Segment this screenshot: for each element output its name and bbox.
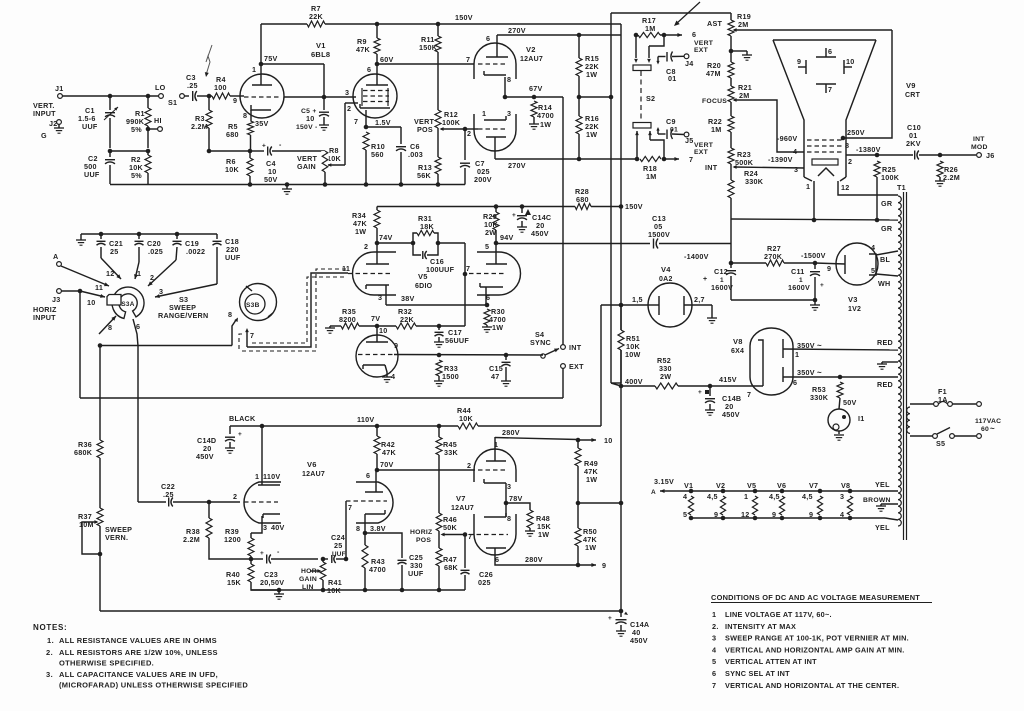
svg-text:C9: C9 bbox=[666, 117, 676, 126]
svg-text:1: 1 bbox=[806, 182, 810, 191]
svg-text:68K: 68K bbox=[444, 563, 458, 572]
svg-text:INT: INT bbox=[569, 343, 582, 352]
svg-text:2W: 2W bbox=[485, 228, 496, 237]
svg-text:J5: J5 bbox=[685, 136, 694, 145]
svg-text:4700: 4700 bbox=[537, 111, 554, 120]
svg-text:EXT: EXT bbox=[569, 362, 584, 371]
svg-text:.25: .25 bbox=[187, 81, 198, 90]
svg-text:+: + bbox=[262, 143, 266, 150]
svg-text:1500: 1500 bbox=[442, 372, 459, 381]
svg-text:V7: V7 bbox=[809, 481, 818, 490]
svg-text:SYNC: SYNC bbox=[530, 338, 551, 347]
svg-text:01: 01 bbox=[670, 127, 678, 134]
svg-text:A: A bbox=[651, 489, 656, 496]
svg-text:YEL: YEL bbox=[875, 523, 890, 532]
svg-text:10K: 10K bbox=[225, 165, 239, 174]
svg-text:56K: 56K bbox=[417, 171, 431, 180]
svg-text:3: 3 bbox=[794, 165, 798, 174]
svg-text:S5: S5 bbox=[936, 439, 945, 448]
svg-text:025: 025 bbox=[478, 578, 491, 587]
svg-text:11: 11 bbox=[95, 283, 103, 292]
svg-text:UUF: UUF bbox=[332, 551, 346, 558]
svg-text:40V: 40V bbox=[271, 523, 285, 532]
svg-text:J2: J2 bbox=[49, 119, 58, 128]
svg-text:3: 3 bbox=[263, 523, 267, 532]
svg-text:1: 1 bbox=[744, 492, 748, 501]
svg-text:6: 6 bbox=[366, 471, 370, 480]
svg-text:3: 3 bbox=[507, 109, 511, 118]
svg-text:RED: RED bbox=[877, 338, 893, 347]
svg-text:250V: 250V bbox=[847, 128, 865, 137]
svg-text:I1: I1 bbox=[858, 414, 865, 423]
svg-text:+: + bbox=[820, 282, 824, 289]
svg-text:~: ~ bbox=[817, 368, 822, 377]
svg-text:5: 5 bbox=[683, 510, 687, 519]
svg-text:1W: 1W bbox=[492, 323, 503, 332]
svg-text:7: 7 bbox=[354, 117, 358, 126]
svg-text:V1: V1 bbox=[684, 481, 693, 490]
svg-text:5%: 5% bbox=[131, 125, 142, 134]
svg-text:2: 2 bbox=[233, 492, 237, 501]
svg-text:150K: 150K bbox=[419, 43, 438, 52]
svg-text:117VAC: 117VAC bbox=[975, 418, 1001, 425]
svg-text:7: 7 bbox=[689, 155, 693, 164]
svg-text:1: 1 bbox=[712, 610, 716, 619]
svg-text:V5: V5 bbox=[418, 272, 428, 281]
svg-text:1: 1 bbox=[137, 269, 141, 278]
svg-text:18K: 18K bbox=[420, 222, 434, 231]
svg-text:1.5V: 1.5V bbox=[375, 118, 391, 127]
svg-text:V7: V7 bbox=[456, 494, 466, 503]
svg-text:3.: 3. bbox=[46, 670, 53, 679]
svg-text:7: 7 bbox=[250, 331, 254, 340]
svg-text:280V: 280V bbox=[502, 428, 520, 437]
svg-text:22K: 22K bbox=[400, 315, 414, 324]
svg-text:V8: V8 bbox=[841, 481, 850, 490]
svg-text:INT: INT bbox=[705, 163, 718, 172]
svg-text:5: 5 bbox=[485, 242, 489, 251]
svg-text:6BL8: 6BL8 bbox=[311, 50, 330, 59]
svg-text:+: + bbox=[512, 212, 516, 219]
svg-text:UUF: UUF bbox=[82, 122, 98, 131]
svg-text:AST: AST bbox=[707, 19, 722, 28]
svg-text:4700: 4700 bbox=[369, 565, 386, 574]
svg-text:4,5: 4,5 bbox=[802, 492, 813, 501]
svg-text:6X4: 6X4 bbox=[731, 348, 744, 355]
svg-text:V4: V4 bbox=[661, 265, 671, 274]
svg-text:100K: 100K bbox=[442, 118, 461, 127]
svg-text:1500V: 1500V bbox=[648, 230, 670, 239]
svg-text:BROWN: BROWN bbox=[863, 497, 891, 504]
svg-text:+: + bbox=[260, 550, 264, 557]
svg-text:1M: 1M bbox=[645, 24, 656, 33]
svg-text:S2: S2 bbox=[646, 94, 655, 103]
svg-text:100: 100 bbox=[214, 83, 227, 92]
svg-text:1: 1 bbox=[482, 109, 486, 118]
svg-text:1: 1 bbox=[252, 65, 256, 74]
svg-text:50K: 50K bbox=[443, 523, 457, 532]
svg-text:1: 1 bbox=[494, 440, 498, 449]
svg-text:ALL RESISTORS ARE 1/2W 10%,: ALL RESISTORS ARE 1/2W 10%, UNLESS bbox=[59, 648, 218, 657]
svg-text:680K: 680K bbox=[74, 448, 93, 457]
svg-text:5: 5 bbox=[712, 657, 716, 666]
svg-text:350V: 350V bbox=[797, 341, 815, 350]
svg-text:50V: 50V bbox=[264, 175, 278, 184]
svg-text:12AU7: 12AU7 bbox=[302, 471, 325, 478]
svg-text:1M: 1M bbox=[711, 125, 722, 134]
svg-text:1W: 1W bbox=[586, 475, 597, 484]
svg-text:7: 7 bbox=[712, 681, 716, 690]
svg-text:V8: V8 bbox=[733, 337, 743, 346]
svg-text:70V: 70V bbox=[380, 460, 394, 469]
svg-text:74V: 74V bbox=[379, 233, 393, 242]
svg-text:100K: 100K bbox=[881, 173, 900, 182]
svg-text:WH: WH bbox=[878, 279, 890, 288]
svg-text:10: 10 bbox=[87, 298, 96, 307]
svg-text:2: 2 bbox=[467, 129, 471, 138]
svg-text:8: 8 bbox=[507, 514, 511, 523]
svg-text:60V: 60V bbox=[380, 55, 394, 64]
svg-text:38V: 38V bbox=[401, 294, 415, 303]
svg-text:9: 9 bbox=[394, 341, 398, 350]
svg-text:78V: 78V bbox=[509, 494, 523, 503]
svg-text:15K: 15K bbox=[227, 578, 241, 587]
svg-text:POS: POS bbox=[416, 537, 431, 544]
svg-text:3: 3 bbox=[712, 634, 716, 643]
svg-text:10K: 10K bbox=[459, 414, 473, 423]
svg-text:+: + bbox=[238, 431, 242, 438]
svg-text:47: 47 bbox=[491, 372, 500, 381]
svg-text:6: 6 bbox=[136, 322, 140, 331]
svg-text:ALL RESISTANCE VALUES ARE: ALL RESISTANCE VALUES ARE IN OHMS bbox=[59, 636, 217, 645]
svg-text:4: 4 bbox=[840, 510, 844, 519]
svg-text:V2: V2 bbox=[526, 45, 536, 54]
svg-text:330K: 330K bbox=[745, 177, 764, 186]
svg-text:1A: 1A bbox=[938, 395, 948, 404]
svg-text:25: 25 bbox=[110, 247, 119, 256]
svg-text:8: 8 bbox=[356, 524, 360, 533]
svg-text:+: + bbox=[608, 615, 612, 622]
svg-text:280V: 280V bbox=[525, 555, 543, 564]
svg-text:12AU7: 12AU7 bbox=[520, 56, 543, 63]
svg-text:10: 10 bbox=[846, 57, 855, 66]
svg-text:3.15V: 3.15V bbox=[654, 477, 674, 486]
svg-text:110V: 110V bbox=[357, 415, 374, 424]
svg-text:.003: .003 bbox=[408, 150, 423, 159]
svg-text:0A2: 0A2 bbox=[659, 276, 673, 283]
svg-text:J1: J1 bbox=[55, 84, 64, 93]
svg-text:2: 2 bbox=[467, 461, 471, 470]
svg-text:6: 6 bbox=[828, 47, 832, 56]
svg-text:1V2: 1V2 bbox=[848, 306, 861, 313]
svg-text:3: 3 bbox=[345, 88, 349, 97]
svg-text:2,7: 2,7 bbox=[694, 295, 705, 304]
svg-text:INPUT: INPUT bbox=[33, 109, 56, 118]
svg-text:BL: BL bbox=[880, 255, 890, 264]
svg-text:6: 6 bbox=[486, 34, 490, 43]
svg-text:HORIZ: HORIZ bbox=[410, 529, 432, 536]
svg-text:12AU7: 12AU7 bbox=[451, 505, 474, 512]
svg-text:5: 5 bbox=[871, 266, 875, 275]
svg-text:415V: 415V bbox=[719, 375, 737, 384]
svg-text:500K: 500K bbox=[735, 158, 754, 167]
svg-text:8: 8 bbox=[845, 141, 849, 150]
svg-text:LINE VOLTAGE AT 117V, 60~.: LINE VOLTAGE AT 117V, 60~. bbox=[725, 610, 832, 619]
svg-text:10: 10 bbox=[379, 326, 388, 335]
svg-text:1.: 1. bbox=[47, 636, 54, 645]
svg-text:9: 9 bbox=[233, 96, 237, 105]
svg-text:UUF: UUF bbox=[408, 569, 424, 578]
svg-text:60: 60 bbox=[981, 426, 989, 433]
svg-text:1W: 1W bbox=[585, 543, 596, 552]
svg-text:HI: HI bbox=[154, 116, 162, 125]
svg-text:A: A bbox=[53, 252, 58, 261]
svg-text:680: 680 bbox=[576, 195, 589, 204]
svg-text:9: 9 bbox=[602, 561, 606, 570]
svg-text:V1: V1 bbox=[316, 41, 326, 50]
svg-text:6: 6 bbox=[367, 65, 371, 74]
svg-text:VERT: VERT bbox=[694, 40, 714, 47]
svg-text:-1380V: -1380V bbox=[856, 145, 881, 154]
svg-text:680: 680 bbox=[226, 130, 239, 139]
svg-text:10K: 10K bbox=[327, 154, 341, 163]
svg-text:47K: 47K bbox=[356, 45, 370, 54]
svg-text:4: 4 bbox=[793, 147, 797, 156]
svg-text:UUF: UUF bbox=[225, 253, 241, 262]
svg-text:9: 9 bbox=[797, 57, 801, 66]
svg-text:-960V: -960V bbox=[777, 134, 797, 143]
svg-text:7: 7 bbox=[468, 532, 472, 541]
svg-text:-1400V: -1400V bbox=[684, 252, 709, 261]
svg-text:2: 2 bbox=[364, 242, 368, 251]
svg-text:.25: .25 bbox=[163, 490, 174, 499]
svg-text:G: G bbox=[41, 131, 47, 140]
svg-text:3: 3 bbox=[507, 482, 511, 491]
svg-text:V6: V6 bbox=[777, 481, 786, 490]
svg-text:9: 9 bbox=[809, 510, 813, 519]
svg-text:4,5: 4,5 bbox=[769, 492, 780, 501]
svg-text:BLACK: BLACK bbox=[229, 414, 256, 423]
svg-text:20,50V: 20,50V bbox=[260, 578, 284, 587]
svg-text:S3A: S3A bbox=[121, 301, 134, 308]
svg-text:2.2M: 2.2M bbox=[183, 535, 200, 544]
svg-text:6DIO: 6DIO bbox=[415, 283, 433, 290]
svg-text:94V: 94V bbox=[500, 233, 514, 242]
svg-text:NOTES:: NOTES: bbox=[33, 623, 67, 632]
svg-text:9: 9 bbox=[714, 510, 718, 519]
svg-text:8: 8 bbox=[108, 323, 112, 332]
svg-text:6: 6 bbox=[692, 30, 696, 39]
svg-text:V9: V9 bbox=[906, 81, 916, 90]
svg-text:270V: 270V bbox=[508, 161, 526, 170]
svg-text:CONDITIONS OF DC AND AC V: CONDITIONS OF DC AND AC VOLTAGE MEASUREM… bbox=[711, 593, 920, 602]
svg-text:6: 6 bbox=[712, 669, 716, 678]
svg-text:9: 9 bbox=[772, 510, 776, 519]
svg-text:4,5: 4,5 bbox=[707, 492, 718, 501]
svg-text:2.: 2. bbox=[46, 648, 53, 657]
svg-text:V5: V5 bbox=[747, 481, 756, 490]
svg-text:J3: J3 bbox=[52, 295, 61, 304]
svg-text:YEL: YEL bbox=[875, 480, 890, 489]
svg-text:6: 6 bbox=[486, 293, 490, 302]
svg-text:8: 8 bbox=[507, 75, 511, 84]
svg-text:400V: 400V bbox=[625, 377, 643, 386]
svg-text:47K: 47K bbox=[382, 448, 396, 457]
svg-text:8200: 8200 bbox=[339, 315, 356, 324]
svg-text:INTENSITY AT MAX: INTENSITY AT MAX bbox=[725, 622, 796, 631]
svg-text:VERTICAL ATTEN AT INT: VERTICAL ATTEN AT INT bbox=[725, 657, 817, 666]
svg-text:450V: 450V bbox=[196, 452, 214, 461]
svg-text:560: 560 bbox=[371, 150, 384, 159]
svg-text:7: 7 bbox=[348, 503, 352, 512]
svg-text:-1390V: -1390V bbox=[768, 155, 793, 164]
svg-text:CRT: CRT bbox=[905, 92, 921, 99]
svg-text:POS: POS bbox=[417, 125, 433, 134]
svg-text:GR: GR bbox=[881, 224, 893, 233]
svg-text:150V -: 150V - bbox=[296, 124, 318, 131]
svg-text:8: 8 bbox=[243, 111, 247, 120]
svg-text:12: 12 bbox=[106, 269, 115, 278]
svg-text:11: 11 bbox=[342, 264, 350, 273]
svg-text:VERT: VERT bbox=[694, 142, 714, 149]
svg-text:2: 2 bbox=[150, 273, 154, 282]
svg-text:2.: 2. bbox=[712, 622, 719, 631]
svg-text:V3: V3 bbox=[848, 295, 858, 304]
svg-text:.0022: .0022 bbox=[186, 247, 205, 256]
svg-text:1W: 1W bbox=[355, 227, 366, 236]
svg-text:ALL CAPACITANCE VALUES ARE: ALL CAPACITANCE VALUES ARE IN UFD, bbox=[59, 670, 218, 679]
svg-text:4: 4 bbox=[683, 492, 687, 501]
svg-text:.025: .025 bbox=[148, 247, 163, 256]
svg-text:2KV: 2KV bbox=[906, 139, 921, 148]
svg-text:VERTICAL AND HORIZONTAL AMP: VERTICAL AND HORIZONTAL AMP GAIN AT MIN. bbox=[725, 645, 905, 654]
svg-text:2W: 2W bbox=[660, 372, 671, 381]
svg-text:EXT: EXT bbox=[694, 47, 709, 54]
svg-text:VERN.: VERN. bbox=[105, 533, 128, 542]
svg-text:22K: 22K bbox=[309, 12, 323, 21]
svg-text:C11: C11 bbox=[791, 267, 805, 276]
svg-text:75V: 75V bbox=[264, 54, 278, 63]
svg-text:3: 3 bbox=[159, 287, 163, 296]
svg-text:450V: 450V bbox=[722, 410, 740, 419]
svg-text:1: 1 bbox=[795, 350, 799, 359]
svg-text:47M: 47M bbox=[706, 69, 721, 78]
svg-text:INT: INT bbox=[973, 136, 985, 143]
svg-text:1W: 1W bbox=[538, 530, 549, 539]
svg-text:1600V: 1600V bbox=[788, 283, 810, 292]
svg-text:EXT: EXT bbox=[694, 149, 709, 156]
svg-text:2M: 2M bbox=[738, 20, 749, 29]
svg-text:J6: J6 bbox=[986, 151, 995, 160]
svg-text:110V: 110V bbox=[263, 472, 280, 481]
svg-text:V6: V6 bbox=[307, 460, 317, 469]
svg-text:450V: 450V bbox=[630, 636, 648, 645]
svg-text:S3B: S3B bbox=[246, 302, 260, 309]
svg-text:3.8V: 3.8V bbox=[370, 524, 386, 533]
svg-text:S1: S1 bbox=[168, 98, 177, 107]
svg-text:7: 7 bbox=[828, 85, 832, 94]
svg-text:4: 4 bbox=[871, 243, 875, 252]
svg-text:UUF: UUF bbox=[84, 170, 100, 179]
svg-text:-1500V: -1500V bbox=[801, 251, 826, 260]
svg-text:5%: 5% bbox=[131, 171, 142, 180]
svg-text:1,5: 1,5 bbox=[632, 295, 643, 304]
svg-text:GAIN: GAIN bbox=[297, 162, 316, 171]
svg-text:35V: 35V bbox=[255, 119, 269, 128]
svg-text:GAIN: GAIN bbox=[299, 576, 317, 583]
svg-text:2M: 2M bbox=[739, 91, 750, 100]
svg-text:~: ~ bbox=[817, 341, 822, 350]
svg-text:1: 1 bbox=[255, 472, 259, 481]
svg-text:8: 8 bbox=[228, 310, 232, 319]
svg-text:33K: 33K bbox=[444, 448, 458, 457]
svg-text:J4: J4 bbox=[685, 59, 694, 68]
svg-text:OTHERWISE SPECIFIED.: OTHERWISE SPECIFIED. bbox=[59, 659, 154, 668]
svg-text:12: 12 bbox=[741, 510, 750, 519]
svg-text:INPUT: INPUT bbox=[33, 313, 56, 322]
svg-text:7V: 7V bbox=[371, 314, 380, 323]
svg-text:10: 10 bbox=[306, 114, 315, 123]
svg-text:2.2M: 2.2M bbox=[191, 122, 208, 131]
svg-text:1W: 1W bbox=[586, 70, 597, 79]
svg-text:MOD: MOD bbox=[971, 144, 988, 151]
svg-text:350V: 350V bbox=[797, 368, 815, 377]
svg-text:-: - bbox=[279, 142, 282, 149]
svg-text:12: 12 bbox=[841, 183, 850, 192]
svg-text:VERTICAL AND HORIZONTAL AT: VERTICAL AND HORIZONTAL AT THE CENTER. bbox=[725, 681, 899, 690]
svg-text:200V: 200V bbox=[474, 175, 492, 184]
svg-text:10: 10 bbox=[604, 436, 613, 445]
svg-text:SYNC SEL AT INT: SYNC SEL AT INT bbox=[725, 669, 790, 678]
svg-text:4: 4 bbox=[712, 645, 717, 654]
svg-text:67V: 67V bbox=[529, 84, 543, 93]
svg-text:270K: 270K bbox=[764, 252, 783, 261]
svg-text:330K: 330K bbox=[810, 393, 829, 402]
svg-text:~: ~ bbox=[990, 424, 995, 433]
svg-text:1M: 1M bbox=[646, 172, 657, 181]
svg-text:RANGE/VERN: RANGE/VERN bbox=[158, 311, 208, 320]
svg-text:V2: V2 bbox=[716, 481, 725, 490]
svg-text:7: 7 bbox=[466, 55, 470, 64]
svg-text:GR: GR bbox=[881, 199, 893, 208]
svg-text:150V: 150V bbox=[625, 202, 643, 211]
svg-text:C12: C12 bbox=[714, 267, 728, 276]
svg-text:25: 25 bbox=[334, 541, 343, 550]
svg-text:6: 6 bbox=[793, 378, 797, 387]
svg-text:RED: RED bbox=[877, 380, 893, 389]
svg-text:SWEEP RANGE AT 100-1K, POT: SWEEP RANGE AT 100-1K, POT VERNIER AT MI… bbox=[725, 634, 909, 643]
svg-text:9: 9 bbox=[827, 264, 831, 273]
svg-text:T1: T1 bbox=[897, 183, 906, 192]
svg-text:1600V: 1600V bbox=[711, 283, 733, 292]
svg-text:270V: 270V bbox=[508, 26, 526, 35]
svg-text:+: + bbox=[703, 276, 707, 283]
svg-text:3: 3 bbox=[378, 293, 382, 302]
svg-text:+: + bbox=[698, 389, 702, 396]
svg-text:450V: 450V bbox=[531, 229, 549, 238]
svg-text:10W: 10W bbox=[625, 350, 641, 359]
svg-text:100UUF: 100UUF bbox=[426, 265, 455, 274]
svg-text:1200: 1200 bbox=[224, 535, 241, 544]
svg-text:2: 2 bbox=[848, 157, 852, 166]
svg-text:01: 01 bbox=[668, 74, 677, 83]
svg-text:150V: 150V bbox=[455, 13, 473, 22]
svg-text:7: 7 bbox=[747, 390, 751, 399]
svg-text:(MICROFARAD) UNLESS OTHERWIS: (MICROFARAD) UNLESS OTHERWISE SPECIFIED bbox=[59, 681, 248, 690]
svg-text:-: - bbox=[277, 549, 280, 556]
svg-text:56UUF: 56UUF bbox=[445, 336, 469, 345]
svg-text:3: 3 bbox=[840, 492, 844, 501]
